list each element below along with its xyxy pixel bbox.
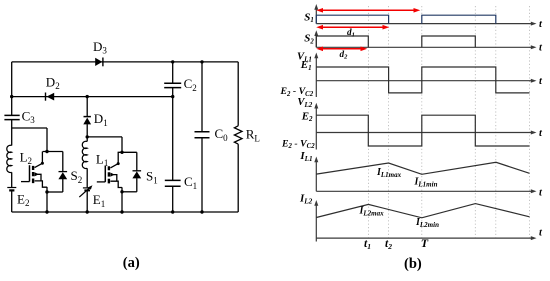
svg-text:T: T bbox=[421, 236, 429, 250]
svg-text:(a): (a) bbox=[123, 255, 140, 271]
svg-text:(b): (b) bbox=[404, 256, 422, 272]
